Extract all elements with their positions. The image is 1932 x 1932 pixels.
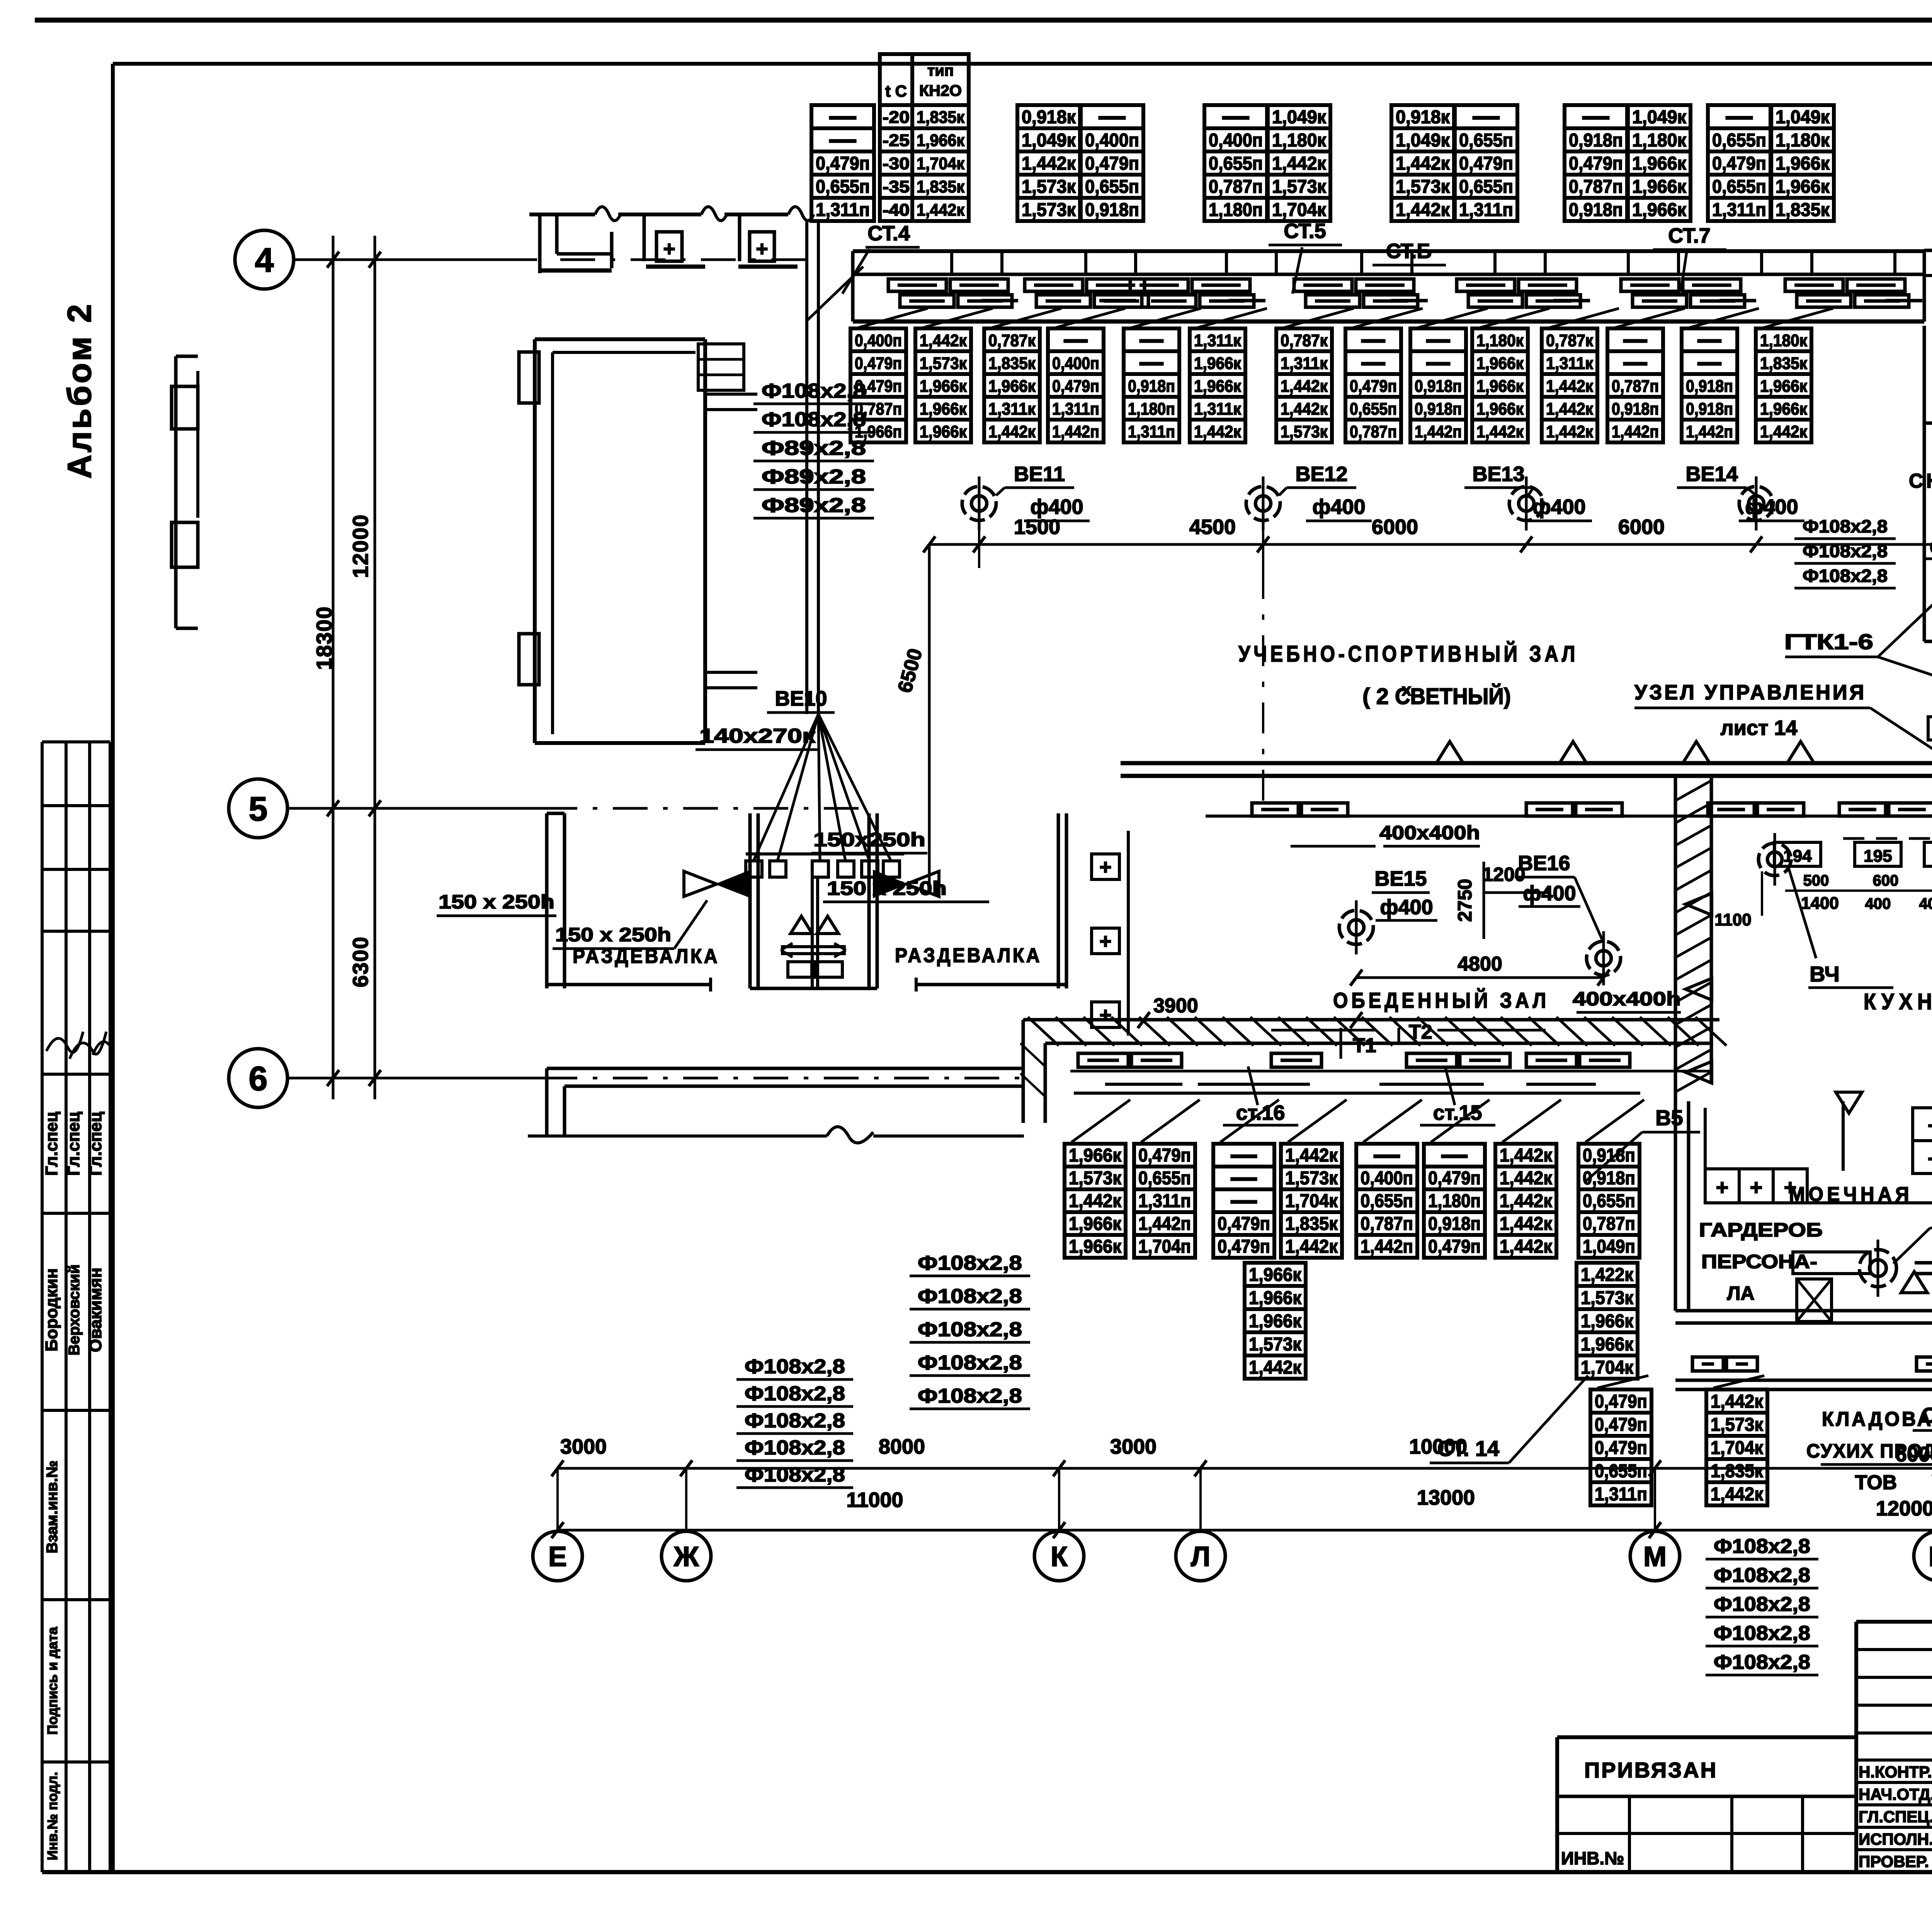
- svg-text:0,787п: 0,787п: [1209, 177, 1263, 197]
- svg-text:1,442к: 1,442к: [1500, 1236, 1553, 1257]
- axis 6 line: [288, 1077, 543, 1080]
- svg-text:0,400п: 0,400п: [1209, 130, 1263, 151]
- table A8: [1565, 105, 1627, 221]
- svg-text:1,442к: 1,442к: [1500, 1168, 1553, 1189]
- svg-text:0,400п: 0,400п: [855, 331, 902, 350]
- BE17 crossbox: [1793, 1252, 1870, 1274]
- dressing room walls: [547, 813, 1066, 992]
- table A6: [1391, 105, 1454, 221]
- svg-text:1,442к: 1,442к: [1249, 1357, 1302, 1378]
- svg-text:1,573к: 1,573к: [1396, 177, 1450, 197]
- svg-text:1,966к: 1,966к: [920, 422, 967, 441]
- svg-text:0,479п: 0,479п: [1459, 153, 1513, 174]
- table B5: [1124, 328, 1179, 442]
- snaryadnaya walls: [1923, 423, 1926, 641]
- svg-text:ф400: ф400: [1030, 495, 1083, 519]
- svg-text:0,918п: 0,918п: [1428, 1214, 1481, 1234]
- svg-text:СТ.Б: СТ.Б: [1386, 240, 1432, 263]
- svg-text:Т1: Т1: [1353, 1034, 1376, 1057]
- svg-text:+: +: [1750, 1175, 1763, 1199]
- svg-text:1,966к: 1,966к: [1069, 1145, 1122, 1166]
- F108 stack southwest: [736, 1355, 853, 1488]
- dim 6500 vertical: [928, 544, 931, 889]
- svg-text:СТ.7: СТ.7: [1668, 224, 1711, 247]
- svg-text:1,966к: 1,966к: [988, 377, 1036, 396]
- svg-text:( 2: ( 2: [1362, 684, 1389, 709]
- svg-text:1,442к: 1,442к: [1194, 422, 1242, 441]
- kitchen top group: [1714, 833, 1932, 988]
- svg-text:1,442к: 1,442к: [917, 201, 965, 219]
- table A9: [1628, 105, 1690, 221]
- svg-text:Ф108х2,8: Ф108х2,8: [918, 1285, 1022, 1308]
- svg-text:150 х 250h: 150 х 250h: [827, 878, 947, 899]
- svg-text:400х400h: 400х400h: [1379, 822, 1480, 844]
- svg-text:СВЕТНЫЙ): СВЕТНЫЙ): [1395, 684, 1511, 709]
- svg-text:ИСПОЛН.: ИСПОЛН.: [1859, 1830, 1932, 1848]
- left stamp strip: [42, 742, 112, 1872]
- svg-text:0,655п: 0,655п: [1459, 130, 1513, 151]
- svg-text:1,966к: 1,966к: [1476, 377, 1524, 396]
- svg-text:1,311п: 1,311п: [1138, 1191, 1191, 1211]
- svg-text:0,918п: 0,918п: [1415, 377, 1462, 396]
- svg-text:1,442к: 1,442к: [1281, 377, 1328, 396]
- svg-text:Ф89х2,8: Ф89х2,8: [762, 437, 866, 459]
- svg-text:0,479п: 0,479п: [1052, 377, 1099, 396]
- svg-text:1,573к: 1,573к: [1281, 422, 1328, 441]
- svg-text:Ф108х2,8: Ф108х2,8: [918, 1252, 1022, 1274]
- svg-text:1,442п: 1,442п: [1686, 422, 1733, 441]
- svg-text:В5: В5: [1655, 1105, 1683, 1130]
- climate table: [880, 54, 969, 221]
- svg-text:0,787к: 0,787к: [988, 331, 1036, 350]
- svg-text:0,918к: 0,918к: [1396, 107, 1450, 128]
- svg-text:КУХНЯ: КУХНЯ: [1864, 989, 1932, 1014]
- svg-text:Гл.спец: Гл.спец: [64, 1112, 83, 1176]
- axis circle 4: [235, 230, 294, 289]
- west wing walls: [519, 339, 757, 743]
- svg-text:ОБЕДЕННЫЙ ЗАЛ: ОБЕДЕННЫЙ ЗАЛ: [1333, 988, 1549, 1012]
- svg-text:Ф108х2,8: Ф108х2,8: [745, 1355, 845, 1378]
- svg-text:600: 600: [1873, 872, 1899, 889]
- table A10: [1708, 105, 1770, 221]
- svg-text:ст.16: ст.16: [1236, 1101, 1285, 1124]
- table D1: [1065, 1144, 1126, 1258]
- svg-text:Ф108х2,8: Ф108х2,8: [918, 1385, 1022, 1407]
- F108 stack mid: [1794, 516, 1896, 588]
- svg-text:0,655п: 0,655п: [1583, 1191, 1635, 1211]
- svg-text:1,049к: 1,049к: [1272, 107, 1327, 128]
- frame top border: [113, 62, 1932, 66]
- svg-text:0,787п: 0,787п: [1612, 377, 1659, 396]
- table B2: [915, 328, 971, 442]
- svg-text:1,049к: 1,049к: [1776, 107, 1830, 128]
- table B8: [1345, 328, 1401, 442]
- svg-text:Н.КОНТР.: Н.КОНТР.: [1859, 1763, 1932, 1781]
- svg-text:Ф108х2,8: Ф108х2,8: [1714, 1651, 1810, 1673]
- svg-text:Е: Е: [548, 1541, 567, 1572]
- dim 2750: [1483, 862, 1485, 939]
- vent BE14: [1739, 476, 1773, 531]
- table B14: [1756, 328, 1811, 442]
- svg-text:1,180п: 1,180п: [1428, 1191, 1481, 1211]
- svg-text:+: +: [1099, 930, 1112, 953]
- svg-text:1,422к: 1,422к: [1581, 1265, 1634, 1285]
- svg-text:1,442к: 1,442к: [1396, 200, 1450, 220]
- svg-text:0,655п: 0,655п: [1350, 400, 1397, 418]
- vent BE11: [962, 476, 996, 531]
- entry block walls: [529, 207, 814, 273]
- svg-text:Верховский: Верховский: [66, 1264, 83, 1355]
- table B1: [850, 328, 906, 442]
- svg-text:СУХИХ ПРОДУК-: СУХИХ ПРОДУК-: [1806, 1440, 1932, 1462]
- svg-text:1,704п: 1,704п: [1138, 1236, 1191, 1257]
- svg-text:Ф108х2,8: Ф108х2,8: [762, 408, 866, 431]
- svg-text:3900: 3900: [1153, 995, 1198, 1017]
- svg-text:0,400п: 0,400п: [1361, 1168, 1413, 1189]
- svg-text:1,442к: 1,442к: [1396, 153, 1450, 174]
- svg-text:1,180к: 1,180к: [1760, 331, 1808, 350]
- svg-text:ВЕ16: ВЕ16: [1518, 852, 1570, 875]
- table S3: [1590, 1389, 1651, 1505]
- svg-text:Ф108х2,8: Ф108х2,8: [1803, 566, 1888, 586]
- svg-text:1,966к: 1,966к: [920, 377, 967, 396]
- west gym wall: [172, 356, 198, 628]
- svg-text:0,918к: 0,918к: [1022, 107, 1076, 128]
- svg-text:1100: 1100: [1714, 910, 1751, 929]
- table D7: [1495, 1144, 1556, 1258]
- svg-text:1,704к: 1,704к: [1711, 1438, 1764, 1458]
- svg-text:0,918п: 0,918п: [1583, 1145, 1635, 1166]
- svg-text:0,400п: 0,400п: [1085, 130, 1139, 151]
- table B13: [1682, 328, 1737, 442]
- svg-text:+: +: [663, 237, 675, 260]
- svg-text:1,311п: 1,311п: [1128, 422, 1175, 441]
- svg-text:Ф108х2,8: Ф108х2,8: [1714, 1593, 1810, 1616]
- svg-text:1,835к: 1,835к: [988, 354, 1036, 373]
- svg-text:1,966к: 1,966к: [1249, 1311, 1302, 1332]
- svg-text:Подпись и дата: Подпись и дата: [44, 1627, 60, 1735]
- svg-text:Гл.спец: Гл.спец: [42, 1112, 61, 1176]
- moechnaya sinks: [1705, 1108, 1932, 1203]
- svg-text:ф400: ф400: [1312, 495, 1365, 519]
- svg-text:1,311п: 1,311п: [1459, 200, 1513, 220]
- svg-text:ГАРДЕРОБ: ГАРДЕРОБ: [1699, 1219, 1823, 1241]
- svg-text:Ф108х2,8: Ф108х2,8: [745, 1437, 845, 1459]
- svg-text:Ф108х2,8: Ф108х2,8: [745, 1410, 845, 1432]
- svg-text:1,966к: 1,966к: [1632, 177, 1687, 197]
- svg-text:Ф108х2,8: Ф108х2,8: [745, 1464, 845, 1486]
- svg-text:0,479п: 0,479п: [1428, 1236, 1481, 1257]
- svg-text:1,835к: 1,835к: [917, 177, 965, 196]
- svg-text:1,311п: 1,311п: [1712, 200, 1766, 220]
- svg-text:1,835к: 1,835к: [917, 108, 965, 127]
- svg-text:0,655п: 0,655п: [1595, 1461, 1647, 1481]
- table D3: [1213, 1144, 1274, 1258]
- svg-text:Ф108х2,8: Ф108х2,8: [1803, 516, 1888, 536]
- svg-text:0,918п: 0,918п: [1128, 377, 1175, 396]
- svg-text:12000: 12000: [348, 514, 372, 578]
- svg-text:1,966к: 1,966к: [1249, 1265, 1302, 1285]
- svg-text:1,180к: 1,180к: [1476, 331, 1524, 350]
- svg-text:+: +: [1928, 1146, 1932, 1171]
- svg-text:1,311к: 1,311к: [1194, 331, 1242, 350]
- svg-text:-20: -20: [883, 108, 910, 127]
- vent BE16: [1587, 931, 1621, 985]
- svg-text:1,180п: 1,180п: [1209, 200, 1263, 220]
- svg-text:М: М: [1643, 1541, 1667, 1572]
- svg-text:Ф108х2,8: Ф108х2,8: [745, 1383, 845, 1405]
- svg-text:+: +: [1099, 855, 1112, 879]
- down triangles: [1836, 1092, 1862, 1113]
- south wall left section: [547, 1067, 1023, 1070]
- svg-text:ф400: ф400: [1380, 896, 1433, 919]
- svg-text:0,479п: 0,479п: [1595, 1438, 1647, 1458]
- svg-text:8000: 8000: [879, 1435, 925, 1458]
- axis 4 line: [294, 259, 537, 261]
- svg-text:ВЕ13: ВЕ13: [1472, 463, 1524, 486]
- svg-text:ВЧ: ВЧ: [1810, 962, 1840, 986]
- garderob triangles: [1901, 1272, 1927, 1293]
- svg-text:-30: -30: [883, 154, 910, 173]
- page top border line: [35, 18, 1932, 23]
- upper dim chain: [923, 515, 1932, 568]
- F108 stack west: [753, 380, 874, 518]
- svg-text:1,704к: 1,704к: [1581, 1357, 1634, 1378]
- svg-text:Ф89х2,8: Ф89х2,8: [762, 494, 866, 517]
- svg-text:0,787к: 0,787к: [1281, 331, 1328, 350]
- svg-text:1,180к: 1,180к: [1272, 130, 1327, 151]
- svg-text:3000: 3000: [560, 1435, 607, 1458]
- svg-text:1,573к: 1,573к: [920, 354, 967, 373]
- svg-text:1,049п: 1,049п: [1583, 1236, 1635, 1257]
- svg-text:0,787к: 0,787к: [1546, 331, 1594, 350]
- axis circle L: [1176, 1531, 1225, 1581]
- svg-text:0,918п: 0,918п: [1569, 130, 1623, 151]
- axis circle K: [1034, 1531, 1084, 1581]
- svg-text:КН2О: КН2О: [919, 82, 962, 99]
- svg-text:1,442к: 1,442к: [1500, 1191, 1553, 1211]
- svg-text:Ф108х2,8: Ф108х2,8: [918, 1318, 1022, 1341]
- svg-text:0,655п: 0,655п: [1209, 153, 1263, 174]
- svg-text:1,442к: 1,442к: [1546, 377, 1594, 396]
- svg-text:0,787п: 0,787п: [1361, 1214, 1413, 1234]
- svg-text:1,966к: 1,966к: [1581, 1334, 1634, 1355]
- table S4: [1706, 1389, 1767, 1505]
- svg-text:195: 195: [1864, 847, 1892, 866]
- svg-text:0,787п: 0,787п: [1583, 1214, 1635, 1234]
- svg-text:1,704к: 1,704к: [1272, 200, 1327, 220]
- svg-text:1,573к: 1,573к: [1285, 1168, 1338, 1189]
- svg-text:0,655п: 0,655п: [1712, 177, 1766, 197]
- svg-text:+: +: [756, 237, 768, 260]
- svg-text:1,966к: 1,966к: [1476, 400, 1524, 418]
- svg-text:УЗЕЛ УПРАВЛЕНИЯ: УЗЕЛ УПРАВЛЕНИЯ: [1634, 681, 1866, 704]
- svg-text:лист 14: лист 14: [1720, 716, 1797, 740]
- F108 stack title: [1706, 1535, 1818, 1675]
- svg-text:ВЕ14: ВЕ14: [1685, 463, 1738, 486]
- table B12: [1607, 328, 1663, 442]
- svg-text:0,479п: 0,479п: [1712, 153, 1766, 174]
- table B4: [1048, 328, 1104, 442]
- svg-text:0,479п: 0,479п: [855, 354, 902, 373]
- table D2: [1134, 1144, 1195, 1258]
- svg-text:1,311п: 1,311п: [1595, 1484, 1647, 1505]
- svg-text:1,442п: 1,442п: [1052, 422, 1099, 441]
- table S2: [1577, 1263, 1638, 1379]
- svg-text:1,704к: 1,704к: [1285, 1191, 1338, 1211]
- svg-text:1,442к: 1,442к: [1760, 422, 1808, 441]
- svg-text:0,787п: 0,787п: [1350, 422, 1397, 441]
- svg-text:1,442п: 1,442п: [1612, 422, 1659, 441]
- svg-text:1,966к: 1,966к: [1776, 153, 1830, 174]
- svg-text:ф400: ф400: [1745, 495, 1798, 519]
- svg-text:400: 400: [1865, 895, 1891, 912]
- svg-text:1,573к: 1,573к: [1022, 200, 1076, 220]
- svg-text:Ф108х2,8: Ф108х2,8: [1714, 1622, 1810, 1645]
- svg-text:6300: 6300: [348, 936, 372, 988]
- svg-text:1,442к: 1,442к: [1272, 153, 1327, 174]
- svg-text:Ф89х2,8: Ф89х2,8: [762, 466, 866, 488]
- axis circle N: [1914, 1531, 1932, 1581]
- dining hall duct band: [1020, 1017, 1726, 1123]
- svg-text:ПРОВЕР.: ПРОВЕР.: [1859, 1852, 1929, 1871]
- svg-text:1,442к: 1,442к: [1546, 400, 1594, 418]
- title block: [1557, 1622, 1932, 1872]
- svg-text:1,835к: 1,835к: [1760, 354, 1808, 373]
- svg-text:150 х 250h: 150 х 250h: [439, 891, 554, 913]
- svg-text:t С: t С: [885, 82, 907, 100]
- svg-text:1,704к: 1,704к: [917, 154, 965, 173]
- svg-text:4800: 4800: [1458, 953, 1502, 975]
- svg-text:1,442к: 1,442к: [1285, 1236, 1338, 1257]
- svg-text:1,966к: 1,966к: [917, 131, 965, 150]
- svg-text:18300: 18300: [312, 606, 336, 670]
- table D8: [1578, 1144, 1639, 1258]
- svg-text:0,918п: 0,918п: [1612, 400, 1659, 418]
- svg-text:+: +: [1784, 1175, 1797, 1199]
- axis circle E: [533, 1531, 582, 1581]
- svg-text:Инв.№ подл.: Инв.№ подл.: [44, 1772, 60, 1861]
- svg-text:СТ. 14: СТ. 14: [1437, 1436, 1499, 1461]
- svg-text:1,573к: 1,573к: [1581, 1288, 1634, 1308]
- svg-text:ПЕРСОНА-: ПЕРСОНА-: [1701, 1251, 1817, 1272]
- table A3: [1081, 105, 1143, 221]
- svg-text:1,966к: 1,966к: [920, 400, 967, 418]
- svg-text:1,049к: 1,049к: [1632, 107, 1687, 128]
- svg-text:0,918п: 0,918п: [1583, 1168, 1635, 1189]
- frame bottom border: [42, 1870, 1932, 1874]
- svg-text:1,442к: 1,442к: [1711, 1484, 1764, 1505]
- svg-text:0,479п: 0,479п: [1085, 153, 1139, 174]
- svg-text:1,966к: 1,966к: [1632, 200, 1687, 220]
- dining west plus boxes: [1092, 831, 1362, 1036]
- svg-text:1,966к: 1,966к: [1194, 354, 1242, 373]
- svg-text:1,311к: 1,311к: [1546, 354, 1594, 373]
- svg-text:Л: Л: [1191, 1541, 1211, 1572]
- svg-text:0,655п: 0,655п: [1459, 177, 1513, 197]
- svg-text:ВЕ12: ВЕ12: [1295, 463, 1347, 486]
- svg-text:1,180п: 1,180п: [1128, 400, 1175, 418]
- svg-text:Овакимян: Овакимян: [86, 1267, 105, 1352]
- svg-text:1,049к: 1,049к: [1022, 130, 1076, 151]
- svg-text:1,442к: 1,442к: [1711, 1391, 1764, 1412]
- svg-text:5: 5: [249, 790, 268, 828]
- svg-text:-25: -25: [883, 131, 910, 150]
- left dim vertical lines: [332, 236, 335, 1099]
- svg-text:6: 6: [249, 1060, 268, 1098]
- table A1: [811, 105, 874, 221]
- svg-text:1,966к: 1,966к: [1760, 377, 1808, 396]
- riser T2: [1398, 1028, 1400, 1043]
- BE10 risers: [805, 222, 808, 714]
- svg-text:1,442к: 1,442к: [1500, 1214, 1553, 1234]
- riser T1: [1340, 1028, 1342, 1059]
- svg-text:140х270к: 140х270к: [699, 725, 816, 747]
- svg-text:500: 500: [1803, 872, 1829, 889]
- BE10 duct cluster: [684, 714, 939, 988]
- svg-text:1,049к: 1,049к: [1396, 130, 1450, 151]
- svg-text:Ж: Ж: [673, 1541, 699, 1572]
- svg-text:Ф108х2,8: Ф108х2,8: [762, 380, 866, 402]
- table B9: [1410, 328, 1466, 442]
- svg-text:ст.15: ст.15: [1433, 1101, 1482, 1124]
- axis circle 6 left: [229, 1049, 287, 1107]
- svg-text:1,835к: 1,835к: [1285, 1214, 1338, 1234]
- svg-text:ГЛ.СПЕЦ.: ГЛ.СПЕЦ.: [1859, 1808, 1932, 1826]
- svg-text:0,918п: 0,918п: [1686, 377, 1733, 396]
- svg-text:ВЕ10: ВЕ10: [775, 687, 827, 710]
- svg-text:0,918п: 0,918п: [1569, 200, 1623, 220]
- svg-text:0,400п: 0,400п: [1052, 354, 1099, 373]
- svg-text:1,442к: 1,442к: [1500, 1145, 1553, 1166]
- svg-text:1,442к: 1,442к: [1285, 1145, 1338, 1166]
- svg-text:К: К: [1051, 1541, 1068, 1572]
- instructor and electro room walls: [1924, 250, 1932, 641]
- svg-text:тип: тип: [927, 62, 954, 79]
- table A4: [1204, 105, 1267, 221]
- svg-text:1,966к: 1,966к: [1069, 1236, 1122, 1257]
- svg-text:1,442п: 1,442п: [1138, 1214, 1191, 1234]
- svg-text:0,479п: 0,479п: [1350, 377, 1397, 396]
- P1 duct assembly: [1928, 521, 1932, 831]
- svg-text:ВЕ15: ВЕ15: [1374, 867, 1427, 890]
- svg-text:1,442п: 1,442п: [1361, 1236, 1413, 1257]
- svg-text:4: 4: [255, 241, 274, 279]
- svg-text:1500: 1500: [1014, 515, 1060, 539]
- axis 5 line: [288, 807, 543, 810]
- svg-text:Взам.инв.№: Взам.инв.№: [44, 1461, 61, 1553]
- grille triangles kitchen wall: [1685, 893, 1712, 915]
- svg-text:6000: 6000: [1618, 515, 1665, 539]
- axis circle Zh: [662, 1531, 711, 1581]
- svg-text:1,573к: 1,573к: [1022, 177, 1076, 197]
- svg-text:1,966к: 1,966к: [1249, 1288, 1302, 1308]
- svg-text:0,655п: 0,655п: [1085, 177, 1139, 197]
- svg-text:1,442п: 1,442п: [1415, 422, 1462, 441]
- svg-text:Ф108х2,8: Ф108х2,8: [1714, 1535, 1810, 1558]
- svg-text:+: +: [1928, 1113, 1932, 1138]
- vent BE17: [1859, 1240, 1896, 1297]
- vent BE15: [1339, 900, 1373, 954]
- table D4: [1281, 1144, 1342, 1258]
- dim 4800 line: [1356, 976, 1604, 979]
- svg-text:Т2: Т2: [1409, 1021, 1432, 1043]
- svg-text:0,655п: 0,655п: [816, 177, 870, 197]
- svg-text:УЧЕБНО-СПОРТИВНЫЙ ЗАЛ: УЧЕБНО-СПОРТИВНЫЙ ЗАЛ: [1238, 641, 1578, 667]
- svg-text:ф400: ф400: [1532, 495, 1585, 519]
- svg-text:1,442к: 1,442к: [1281, 400, 1328, 418]
- corridor band walls and radiators: [853, 251, 1924, 328]
